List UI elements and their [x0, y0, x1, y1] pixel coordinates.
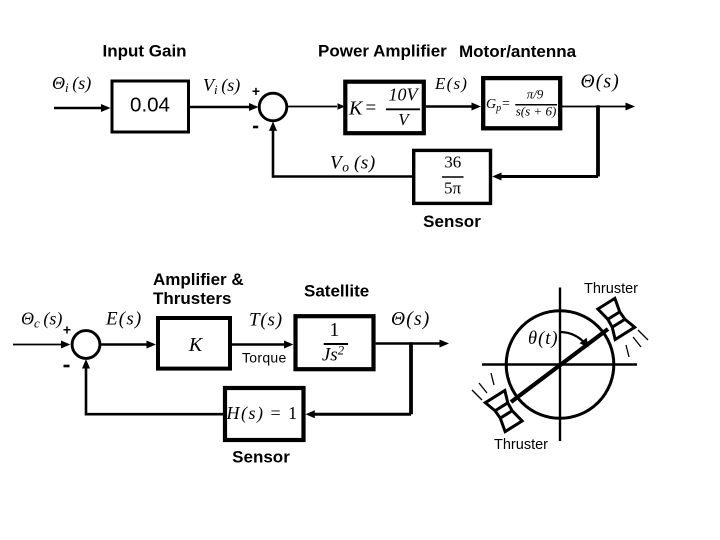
svg-text:s(s + 6): s(s + 6) — [516, 104, 557, 119]
svg-text:=: = — [502, 97, 510, 112]
svg-text:Thrusters: Thrusters — [153, 289, 231, 308]
svg-text:+: + — [252, 83, 260, 99]
svg-text:Sensor: Sensor — [423, 212, 481, 231]
svg-text:Θ(s): Θ(s) — [581, 72, 620, 93]
svg-text:θ(t): θ(t) — [528, 329, 559, 349]
svg-text:=: = — [366, 98, 377, 119]
svg-text:Sensor: Sensor — [232, 448, 290, 467]
svg-text:Amplifier &: Amplifier & — [153, 270, 244, 289]
svg-text:Thruster: Thruster — [584, 281, 638, 297]
svg-text:E(s): E(s) — [434, 74, 468, 93]
svg-text:Input Gain: Input Gain — [103, 42, 187, 61]
svg-text:E(s): E(s) — [105, 309, 142, 330]
svg-text:1: 1 — [329, 319, 339, 341]
svg-text:10V: 10V — [389, 85, 420, 105]
svg-text:K: K — [348, 98, 364, 120]
svg-text:5π: 5π — [444, 179, 462, 198]
svg-text:Power Amplifier: Power Amplifier — [318, 42, 447, 61]
svg-text:T(s): T(s) — [249, 310, 283, 331]
svg-text:Θ(s): Θ(s) — [391, 309, 430, 330]
svg-text:Motor/antenna: Motor/antenna — [459, 42, 577, 61]
svg-text:Θc (s): Θc (s) — [21, 309, 62, 331]
svg-text:36: 36 — [444, 153, 461, 172]
svg-text:H(s) = 1: H(s) = 1 — [226, 403, 299, 424]
svg-text:Θi (s): Θi (s) — [52, 73, 91, 95]
svg-text:Vi (s): Vi (s) — [203, 75, 240, 97]
svg-text:0.04: 0.04 — [130, 94, 170, 117]
svg-text:Vo (s): Vo (s) — [330, 153, 376, 175]
svg-text:Thruster: Thruster — [494, 437, 548, 453]
svg-text:Satellite: Satellite — [304, 282, 369, 301]
svg-text:K: K — [188, 334, 204, 356]
svg-text:Torque: Torque — [242, 350, 287, 366]
svg-text:π/9: π/9 — [527, 86, 544, 101]
svg-text:+: + — [63, 322, 71, 338]
